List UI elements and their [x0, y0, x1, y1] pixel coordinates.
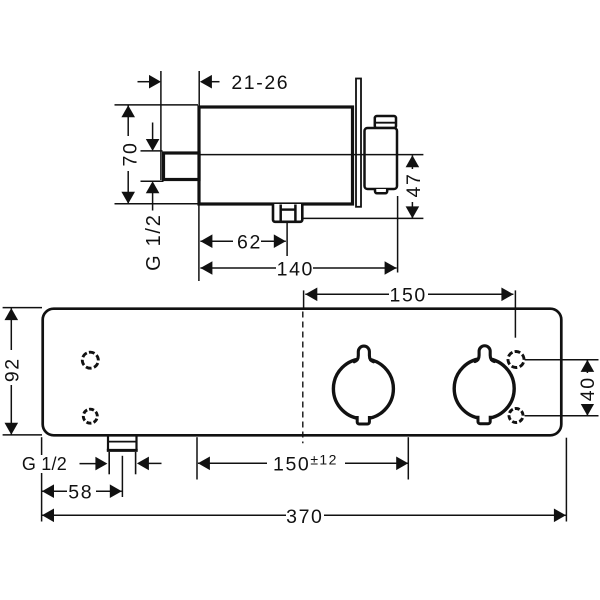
svg-text:70: 70 — [120, 142, 142, 167]
svg-text:140: 140 — [277, 259, 314, 281]
svg-text:58: 58 — [68, 481, 93, 503]
svg-text:370: 370 — [286, 506, 323, 528]
svg-text:40: 40 — [577, 376, 599, 401]
svg-text:21-26: 21-26 — [231, 72, 289, 94]
svg-text:G 1/2: G 1/2 — [143, 213, 165, 270]
svg-text:92: 92 — [2, 357, 24, 382]
svg-text:47: 47 — [403, 173, 425, 198]
svg-text:150: 150 — [390, 285, 427, 307]
svg-text:62: 62 — [237, 231, 262, 253]
svg-text:G 1/2: G 1/2 — [22, 454, 67, 474]
